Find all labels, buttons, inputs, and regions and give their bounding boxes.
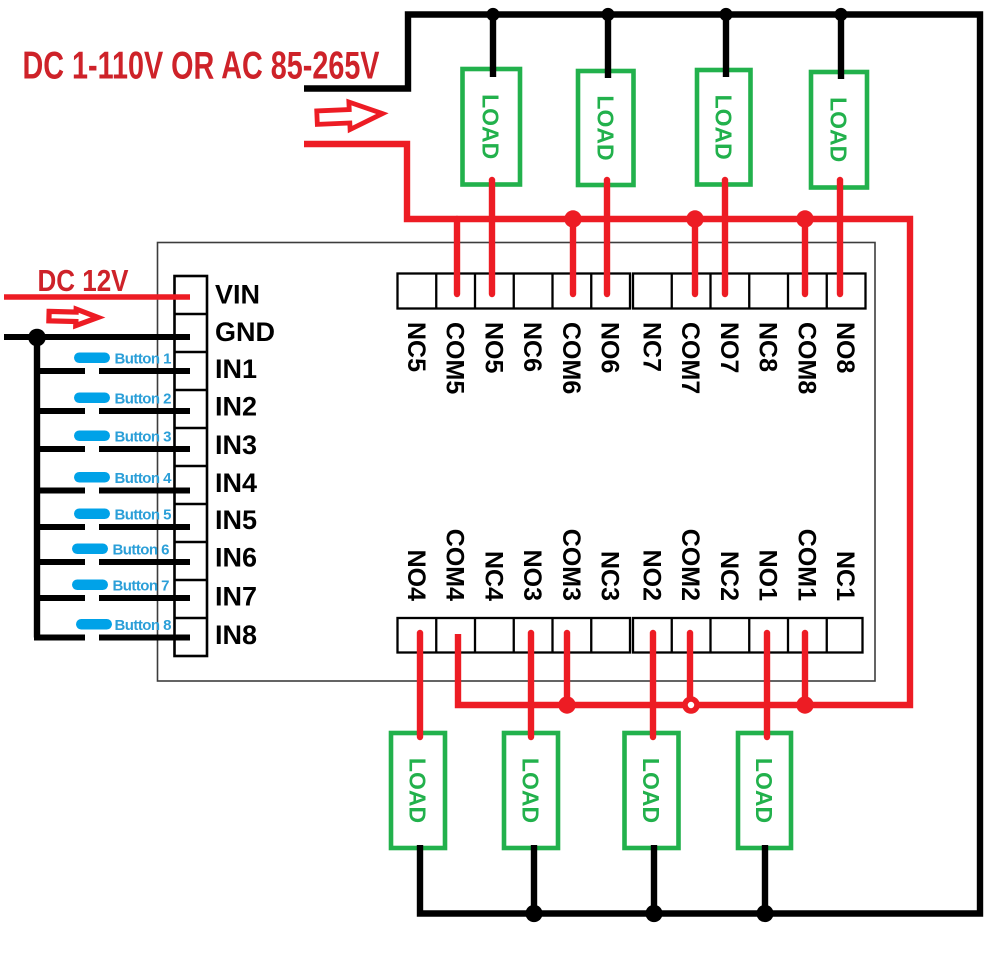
node junction COM2 red bus (open ring) xyxy=(685,699,697,711)
svg-text:IN4: IN4 xyxy=(215,468,257,498)
button S6 xyxy=(72,544,108,555)
button S3 xyxy=(74,431,110,442)
load LD1 (top) xyxy=(463,69,521,185)
svg-text:NC1: NC1 xyxy=(831,551,859,601)
svg-text:IN1: IN1 xyxy=(215,354,257,384)
svg-text:NO4: NO4 xyxy=(402,550,430,602)
svg-text:COM5: COM5 xyxy=(441,322,469,394)
button S1 xyxy=(74,353,110,364)
svg-text:Button 7: Button 7 xyxy=(113,578,170,595)
node junction LD8 bottom bus xyxy=(756,905,773,922)
wire IN7 row with switch gap xyxy=(37,595,85,601)
svg-text:Button 4: Button 4 xyxy=(115,470,173,487)
wire red stub from COM1 xyxy=(802,633,808,705)
svg-text:COM4: COM4 xyxy=(441,529,469,601)
svg-text:COM6: COM6 xyxy=(557,322,585,394)
node junction LD1 top bus xyxy=(486,8,499,21)
wire IN3 row with switch gap xyxy=(37,446,85,452)
button S5 xyxy=(74,509,110,520)
wire black stub to LD1 xyxy=(490,15,496,78)
svg-text:NO6: NO6 xyxy=(596,322,624,373)
svg-text:COM7: COM7 xyxy=(676,322,704,394)
svg-text:NC8: NC8 xyxy=(754,322,782,372)
button S2 xyxy=(74,393,110,404)
svg-text:LOAD: LOAD xyxy=(405,758,431,823)
arrow AC mains direction xyxy=(316,101,383,131)
wire LD4 to NO8 xyxy=(837,180,843,294)
terminal strip top-right (relays 7-8) xyxy=(633,274,866,309)
load LD7 (bottom) xyxy=(625,733,679,848)
svg-text:NO3: NO3 xyxy=(518,550,546,601)
svg-text:LOAD: LOAD xyxy=(592,95,618,160)
svg-text:NC4: NC4 xyxy=(479,551,507,601)
wire NO2 to LD7 xyxy=(650,633,656,737)
wire black stub to LD4 xyxy=(838,15,844,80)
svg-text:NC3: NC3 xyxy=(596,551,624,601)
svg-text:Button 5: Button 5 xyxy=(115,507,172,524)
wire black stub to LD3 xyxy=(723,15,729,78)
wire black stub from LD7 bottom xyxy=(651,845,657,914)
wire IN8 row with switch gap xyxy=(34,635,85,641)
button S8 xyxy=(76,619,112,630)
node junction LD3 top bus xyxy=(719,8,732,21)
svg-text:NC2: NC2 xyxy=(715,551,743,601)
wire red stub from COM3 xyxy=(564,633,570,705)
svg-text:NO8: NO8 xyxy=(831,322,859,374)
svg-text:Button 1: Button 1 xyxy=(115,351,172,368)
wire IN5 row with switch gap xyxy=(37,524,85,530)
node junction LD6 bottom bus xyxy=(525,905,542,922)
arrow DC 12V direction xyxy=(49,308,98,326)
wire AC mains black bus (top/right/bottom loop) xyxy=(304,15,980,914)
wire ground to GND xyxy=(4,334,190,340)
wire button common vertical bus xyxy=(34,337,40,638)
svg-text:LOAD: LOAD xyxy=(710,95,736,160)
wire red stub to COM7 xyxy=(692,219,698,294)
svg-text:Button 2: Button 2 xyxy=(115,391,172,408)
svg-text:NO2: NO2 xyxy=(637,550,665,601)
svg-text:NC6: NC6 xyxy=(518,322,546,372)
node junction LD2 top bus xyxy=(601,8,614,21)
wire IN6 row with switch gap xyxy=(37,559,85,565)
svg-text:VIN: VIN xyxy=(215,279,260,309)
button S4 xyxy=(74,472,110,483)
wire DC 12V positive to VIN xyxy=(4,294,190,300)
terminal strip bottom-left (relays 3-4) xyxy=(398,618,631,653)
svg-text:IN8: IN8 xyxy=(215,620,257,650)
load LD3 (top) xyxy=(697,70,751,185)
pin header J1 xyxy=(175,276,208,656)
svg-text:LOAD: LOAD xyxy=(638,758,664,823)
wire red stub to COM6 xyxy=(570,219,576,294)
svg-text:NC7: NC7 xyxy=(637,322,665,372)
svg-text:NO1: NO1 xyxy=(754,550,782,602)
node junction LD7 bottom bus xyxy=(645,905,662,922)
wire black stub from LD6 bottom xyxy=(531,845,537,914)
svg-text:LOAD: LOAD xyxy=(478,94,504,159)
module outline U1 xyxy=(158,243,876,682)
svg-text:IN6: IN6 xyxy=(215,542,257,572)
svg-text:GND: GND xyxy=(215,317,275,347)
wire LD2 to NO6 xyxy=(604,180,610,294)
svg-text:Button 3: Button 3 xyxy=(115,429,172,446)
svg-text:COM2: COM2 xyxy=(676,529,704,601)
svg-text:DC 1-110V OR AC 85-265V: DC 1-110V OR AC 85-265V xyxy=(23,45,380,88)
svg-text:Button 6: Button 6 xyxy=(113,542,170,559)
wire LD1 to NO5 xyxy=(489,180,495,294)
load LD5 (bottom) xyxy=(391,733,445,848)
svg-text:IN7: IN7 xyxy=(215,582,257,612)
node junction COM7 red bus xyxy=(686,210,703,227)
node junction GND / button bus xyxy=(28,329,46,347)
wire AC mains red bus (live: arrow to COM terminals) xyxy=(304,144,910,705)
load LD4 (top) xyxy=(811,72,867,188)
load LD2 (top) xyxy=(578,71,634,185)
svg-text:LOAD: LOAD xyxy=(518,758,544,823)
load LD8 (bottom) xyxy=(738,733,791,848)
svg-text:IN5: IN5 xyxy=(215,505,257,535)
wire NO1 to LD8 xyxy=(764,633,770,737)
wire red stub to COM5 xyxy=(454,219,460,294)
svg-text:IN3: IN3 xyxy=(215,430,257,460)
svg-text:COM1: COM1 xyxy=(792,529,820,601)
wire red stub from COM2 xyxy=(687,633,693,698)
node junction COM6 red bus xyxy=(564,210,581,227)
svg-text:COM8: COM8 xyxy=(792,322,820,394)
node junction COM3 red bus xyxy=(558,696,575,713)
wire black stub to LD2 xyxy=(605,15,611,79)
svg-text:Button 8: Button 8 xyxy=(115,617,172,634)
terminal strip top-left (relays 5-6) xyxy=(398,274,631,309)
node junction COM8 red bus xyxy=(796,210,813,227)
button S7 xyxy=(72,580,108,591)
node junction LD4 top bus xyxy=(834,8,847,21)
svg-text:DC 12V: DC 12V xyxy=(38,264,130,298)
load LD6 (bottom) xyxy=(504,733,558,848)
wire NO4 to LD5 xyxy=(417,633,423,737)
wire black stub from LD8 bottom xyxy=(762,845,768,914)
wire red stub to COM8 xyxy=(802,219,808,294)
wire IN4 row with switch gap xyxy=(37,488,85,494)
svg-text:NC5: NC5 xyxy=(402,322,430,372)
svg-text:LOAD: LOAD xyxy=(826,97,852,162)
node junction COM1 red bus xyxy=(796,696,813,713)
svg-text:NO7: NO7 xyxy=(715,322,743,373)
svg-text:IN2: IN2 xyxy=(215,391,257,421)
terminal strip bottom-right (relays 1-2) xyxy=(633,618,863,653)
wire LD3 to NO7 xyxy=(722,180,728,294)
wire IN1 row with switch gap xyxy=(37,368,85,374)
svg-text:NO5: NO5 xyxy=(479,322,507,374)
wire IN2 row with switch gap xyxy=(37,408,85,414)
svg-text:LOAD: LOAD xyxy=(751,758,777,823)
wire NO3 to LD6 xyxy=(528,633,534,737)
svg-text:COM3: COM3 xyxy=(557,529,585,601)
